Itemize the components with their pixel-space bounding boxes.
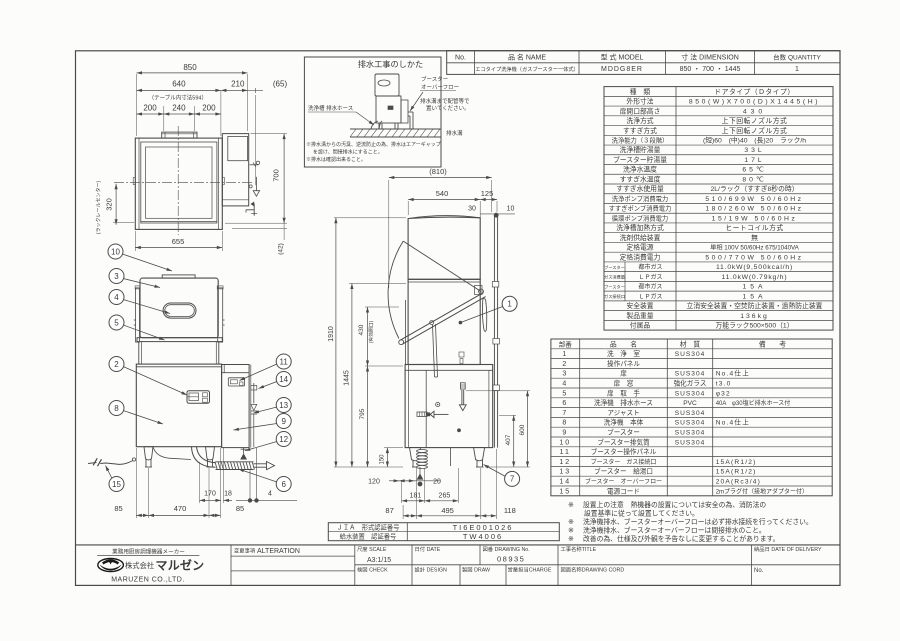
plan booster: [222, 134, 248, 206]
svg-text:17L: 17L: [744, 157, 764, 164]
svg-text:給水装置 認証番号: 給水装置 認証番号: [340, 532, 397, 541]
svg-text:10: 10: [111, 247, 120, 256]
balloon 13: [276, 398, 291, 413]
side bottom dims: [415, 468, 417, 519]
svg-text:都市ガス: 都市ガス: [638, 263, 662, 271]
svg-text:No.4仕上: No.4仕上: [716, 369, 750, 378]
svg-text:(有効開口): (有効開口): [368, 320, 375, 343]
svg-text:品 名: 品 名: [610, 339, 637, 348]
svg-text:118: 118: [504, 506, 516, 515]
svg-text:洗浄槽加熱方式: 洗浄槽加熱方式: [616, 223, 664, 232]
svg-text:ブースター ガス接続口: ブースター ガス接続口: [591, 458, 657, 466]
svg-text:850 ・ 700 ・ 1445: 850 ・ 700 ・ 1445: [680, 66, 741, 73]
svg-text:10: 10: [559, 439, 571, 446]
svg-text:14: 14: [559, 479, 571, 486]
svg-text:210: 210: [231, 80, 245, 89]
prop rod: [433, 325, 435, 378]
svg-text:外形寸法: 外形寸法: [626, 97, 653, 106]
drain pan curve: [153, 447, 191, 460]
svg-text:33L: 33L: [744, 147, 764, 154]
svg-text:136kg: 136kg: [740, 313, 769, 320]
svg-text:320: 320: [105, 198, 114, 211]
open door bar: [400, 293, 483, 341]
svg-text:設置基準に従って設置してください。: 設置基準に従って設置してください。: [584, 509, 699, 518]
svg-text:PVC: PVC: [683, 400, 697, 407]
svg-text:2: 2: [562, 361, 568, 368]
svg-text:寸 法 DIMENSION: 寸 法 DIMENSION: [681, 53, 739, 62]
plan side fittings: gas valve: [250, 164, 259, 166]
svg-text:工事名称TITLE: 工事名称TITLE: [561, 545, 597, 553]
svg-text:(65): (65): [273, 80, 288, 89]
svg-text:定格電源: 定格電源: [626, 243, 653, 252]
svg-text:型 式 MODEL: 型 式 MODEL: [601, 53, 644, 62]
svg-text:洗浄槽貯湯量: 洗浄槽貯湯量: [620, 145, 661, 154]
front lower body: [136, 364, 221, 447]
svg-text:日付 DATE: 日付 DATE: [415, 545, 441, 553]
svg-text:SUS304: SUS304: [675, 410, 706, 417]
plan centerlines: [177, 126, 179, 235]
title block: [76, 544, 841, 546]
svg-text:※: ※: [568, 536, 574, 543]
svg-text:φ32: φ32: [716, 390, 731, 397]
svg-text:※: ※: [568, 519, 574, 526]
svg-text:定格消費電力: 定格消費電力: [620, 252, 661, 261]
side chamber: [408, 279, 480, 364]
svg-text:立消安全装置・空焚防止装置・過熱防止装置: 立消安全装置・空焚防止装置・過熱防止装置: [687, 301, 823, 310]
svg-text:置いてください。: 置いてください。: [426, 105, 470, 112]
svg-text:洗浄方式: 洗浄方式: [626, 116, 653, 125]
front bottom dims: [148, 468, 150, 518]
svg-text:3: 3: [562, 371, 568, 378]
dim 850: [136, 74, 138, 136]
svg-text:850: 850: [183, 63, 197, 72]
svg-text:80℃: 80℃: [742, 176, 766, 183]
drain-work detail box: [304, 57, 441, 167]
coiled drain hose: [417, 450, 428, 453]
svg-text:407: 407: [505, 434, 512, 445]
svg-text:9: 9: [281, 417, 286, 426]
svg-text:納品日 DATE OF DELIVERY: 納品日 DATE OF DELIVERY: [754, 545, 822, 553]
svg-text:1445: 1445: [344, 370, 351, 386]
svg-text:上下回転ノズル方式: 上下回転ノズル方式: [722, 126, 788, 135]
svg-text:1: 1: [507, 300, 512, 309]
svg-text:図番 DRAWING No.: 図番 DRAWING No.: [483, 546, 530, 553]
svg-text:4: 4: [268, 490, 272, 497]
balloon 9: [276, 414, 291, 429]
svg-text:200: 200: [143, 103, 157, 112]
balloon 11: [276, 354, 291, 369]
svg-text:電源コード: 電源コード: [607, 486, 640, 495]
latch parts: [459, 352, 464, 357]
svg-text:すすぎ水温度: すすぎ水温度: [620, 174, 661, 183]
interior symbols: rinse inlet hollow down-arrow: [460, 383, 465, 389]
door swing arc: [388, 241, 403, 338]
svg-text:株式会社: 株式会社: [125, 561, 154, 570]
balloon 1: [502, 296, 517, 311]
drain hose front: [197, 447, 216, 463]
svg-text:を設け、間接排水にすること。: を設け、間接排水にすること。: [313, 149, 383, 156]
svg-text:ブースター 給湯口: ブースター 給湯口: [594, 467, 653, 476]
svg-text:(42): (42): [278, 243, 285, 255]
side view raised hood: [408, 217, 480, 279]
svg-text:ＪＩＡ 形式認証番号: ＪＩＡ 形式認証番号: [337, 523, 400, 532]
svg-text:15A: 15A: [742, 293, 766, 300]
svg-text:（テーブル内寸法594）: （テーブル内寸法594）: [149, 93, 207, 101]
svg-text:6: 6: [281, 480, 286, 489]
balloon 4: [109, 290, 124, 305]
svg-text:強化ガラス: 強化ガラス: [674, 379, 707, 388]
plan rail clips: [133, 178, 135, 185]
svg-text:2mプラグ付（接地アダプター付）: 2mプラグ付（接地アダプター付）: [716, 487, 808, 495]
svg-text:排水溝: 排水溝: [446, 129, 463, 137]
balloon 15: [109, 477, 124, 492]
svg-text:15A(R1/2): 15A(R1/2): [716, 469, 757, 476]
svg-text:検図 CHECK: 検図 CHECK: [357, 566, 388, 574]
svg-text:5: 5: [562, 390, 568, 397]
svg-text:12: 12: [559, 459, 571, 466]
svg-text:495: 495: [441, 506, 454, 515]
svg-text:No.: No.: [754, 568, 764, 574]
chamber section below hood: [138, 342, 140, 365]
svg-text:洗浄水温度: 洗浄水温度: [623, 165, 657, 174]
balloon 10: [108, 244, 123, 259]
svg-text:ブースター オーバーフロー: ブースター オーバーフロー: [585, 478, 662, 486]
svg-text:265: 265: [439, 492, 451, 499]
svg-text:※: ※: [568, 502, 574, 509]
svg-text:ガス消費量: ガス消費量: [604, 274, 625, 281]
svg-text:洗浄能力（３段階）: 洗浄能力（３段階）: [612, 136, 669, 145]
svg-text:改善の為、仕様及び外観を予告なしに変更することがあります。: 改善の為、仕様及び外観を予告なしに変更することがあります。: [583, 534, 779, 543]
svg-text:台数 QUANTITY: 台数 QUANTITY: [773, 53, 821, 62]
dim 540 / 125: [407, 201, 409, 215]
balloon 6: [276, 477, 291, 492]
svg-text:No.4仕上: No.4仕上: [716, 418, 750, 427]
svg-text:540: 540: [436, 189, 449, 198]
hood side posts: [136, 288, 140, 342]
plan view inner rects: [141, 142, 217, 223]
svg-text:850(W)X700(D)X1445(H): 850(W)X700(D)X1445(H): [689, 99, 820, 106]
svg-text:15A: 15A: [742, 284, 766, 291]
svg-text:150: 150: [379, 454, 385, 465]
svg-text:A3:1/15: A3:1/15: [367, 557, 391, 564]
svg-text:4: 4: [114, 293, 119, 302]
svg-text:ブースター: ブースター: [607, 428, 640, 437]
svg-text:2L/ラック（すすぎ8秒の時）: 2L/ラック（すすぎ8秒の時）: [711, 184, 799, 193]
svg-text:430: 430: [358, 324, 365, 335]
dim 1445: [349, 283, 406, 285]
svg-text:操作パネル: 操作パネル: [607, 359, 640, 368]
svg-text:640: 640: [172, 80, 186, 89]
detail: machine body: [376, 96, 401, 123]
svg-text:ブースター: ブースター: [604, 283, 625, 290]
svg-text:付属品: 付属品: [630, 321, 651, 330]
svg-text:ＬＰガス: ＬＰガス: [638, 273, 662, 281]
svg-text:85: 85: [114, 504, 122, 513]
detail: machine hood: [375, 74, 399, 96]
svg-text:安全装置: 安全装置: [626, 301, 653, 310]
dim 700 / (42): [251, 133, 288, 135]
svg-text:扉 窓: 扉 窓: [614, 379, 634, 388]
svg-text:9: 9: [562, 430, 568, 437]
svg-text:マルゼン: マルゼン: [156, 558, 205, 573]
svg-text:08935: 08935: [497, 555, 525, 564]
svg-text:ヒートコイル方式: ヒートコイル方式: [725, 223, 783, 232]
svg-text:洗浄機 本体: 洗浄機 本体: [604, 418, 644, 427]
svg-text:TW4006: TW4006: [463, 532, 503, 541]
svg-text:170: 170: [204, 490, 216, 497]
balloon 7: [505, 471, 520, 486]
svg-text:65℃: 65℃: [742, 167, 766, 174]
svg-text:t3.0: t3.0: [716, 381, 732, 388]
svg-text:洗浄機排水、ブースターオーバーフローは必ず排水接続を行ってく: 洗浄機排水、ブースターオーバーフローは必ず排水接続を行ってください。: [583, 517, 813, 526]
hinge bracket: [475, 286, 483, 295]
dim 640 / 210 / (65): [220, 91, 222, 136]
svg-text:470: 470: [174, 504, 187, 513]
svg-text:10: 10: [507, 205, 515, 212]
svg-text:すすぎポンプ消費電力: すすぎポンプ消費電力: [609, 204, 672, 213]
svg-text:ブースター: ブースター: [604, 264, 625, 271]
svg-text:図面名称DRAWING CORD: 図面名称DRAWING CORD: [561, 566, 625, 574]
svg-text:扉: 扉: [620, 369, 627, 378]
svg-text:洗浄機 排水ホース: 洗浄機 排水ホース: [594, 398, 653, 407]
svg-text:洗浄槽 排水ホース: 洗浄槽 排水ホース: [308, 104, 353, 112]
svg-text:14: 14: [279, 375, 288, 384]
balloon 5: [109, 315, 124, 330]
plan view outer square: [135, 138, 222, 229]
detail: booster overflow pipe: [401, 100, 408, 123]
svg-text:単相 100V 50/60Hz 675/1040VA: 単相 100V 50/60Hz 675/1040VA: [710, 244, 800, 252]
svg-text:製図 DRAW: 製図 DRAW: [462, 566, 490, 574]
svg-text:795: 795: [359, 408, 366, 419]
dim 655: [134, 231, 136, 251]
svg-text:ブースター排気筒: ブースター排気筒: [597, 437, 650, 446]
svg-text:材 質: 材 質: [680, 339, 701, 348]
svg-text:SUS304: SUS304: [675, 430, 706, 437]
svg-text:15A(R1/2): 15A(R1/2): [716, 459, 757, 466]
svg-text:営業担当CHARGE: 営業担当CHARGE: [508, 566, 552, 574]
dim 200/240/200: [163, 106, 165, 131]
svg-text:循環ポンプ消費電力: 循環ポンプ消費電力: [612, 213, 668, 222]
hood handle oval: [163, 303, 196, 318]
svg-text:240: 240: [172, 103, 186, 112]
svg-text:部番: 部番: [559, 339, 573, 348]
hood bottom band: [137, 338, 222, 342]
svg-text:125: 125: [481, 189, 494, 198]
svg-text:655: 655: [172, 237, 185, 246]
svg-text:製品重量: 製品重量: [626, 311, 653, 320]
svg-text:87: 87: [385, 506, 393, 515]
svg-text:120: 120: [368, 478, 380, 485]
detergent inlet hollow left-arrow: [417, 412, 427, 416]
svg-text:15: 15: [112, 480, 121, 489]
svg-text:1910: 1910: [328, 326, 335, 342]
svg-text:ブースター: ブースター: [421, 75, 448, 83]
balloon 12: [276, 432, 291, 447]
dim (810): [388, 180, 390, 288]
svg-text:180/260W 50/60Hz: 180/260W 50/60Hz: [705, 206, 803, 213]
svg-text:No.: No.: [455, 55, 466, 62]
svg-text:200: 200: [202, 103, 216, 112]
legs front: [144, 447, 153, 460]
svg-text:ALTERATION: ALTERATION: [257, 548, 300, 555]
svg-text:11: 11: [560, 449, 571, 456]
svg-text:ドアタイプ（Ｄタイプ）: ドアタイプ（Ｄタイプ）: [714, 87, 794, 96]
svg-text:ブースター貯湯量: ブースター貯湯量: [613, 155, 667, 164]
svg-text:設置上の注意 熱機器の設置については安全の為、消防法の: 設置上の注意 熱機器の設置については安全の為、消防法の: [583, 500, 766, 509]
JIA certification table: [328, 523, 559, 541]
svg-text:11.0kW(9,500kcal/h): 11.0kW(9,500kcal/h): [716, 264, 793, 271]
plan fitting circle: [249, 185, 252, 188]
svg-text:都市ガス: 都市ガス: [638, 283, 662, 291]
balloon 2: [109, 357, 124, 372]
svg-text:15: 15: [559, 488, 571, 495]
dim 150: [384, 447, 403, 449]
svg-text:SUS304: SUS304: [675, 390, 706, 397]
svg-text:20A(Rc3/4): 20A(Rc3/4): [716, 479, 761, 486]
door handle side: [482, 299, 486, 332]
svg-text:85: 85: [236, 504, 244, 513]
svg-text:エコタイプ洗浄機（ガスブースター一体式）: エコタイプ洗浄機（ガスブースター一体式）: [475, 65, 579, 73]
svg-text:排水工事のしかた: 排水工事のしかた: [358, 59, 424, 69]
svg-text:(短)60 (中)40 (長)20 ラック/h: (短)60 (中)40 (長)20 ラック/h: [703, 136, 806, 145]
svg-text:万能ラック500×500（1）: 万能ラック500×500（1）: [715, 321, 793, 330]
svg-text:30: 30: [468, 205, 476, 212]
dim 407 / 600 right: [466, 390, 530, 392]
svg-text:※: ※: [568, 528, 574, 535]
svg-text:(810): (810): [429, 167, 447, 176]
svg-text:洗浄機排水、ブースターオーバーフローは間接排水のこと。: 洗浄機排水、ブースターオーバーフローは間接排水のこと。: [583, 526, 766, 535]
svg-text:SUS304: SUS304: [675, 351, 706, 358]
plan water inlet arrow: [255, 177, 257, 191]
svg-text:4: 4: [562, 381, 568, 388]
power cord: [132, 458, 135, 461]
front view hood: [140, 278, 218, 338]
plan vent tab: [162, 132, 197, 138]
balloon 1: [459, 321, 463, 325]
svg-text:13: 13: [279, 401, 288, 410]
svg-text:12: 12: [279, 435, 288, 444]
specification table: [604, 87, 833, 331]
svg-text:500/770W 50/60Hz: 500/770W 50/60Hz: [705, 254, 803, 261]
svg-text:扉開口部高さ: 扉開口部高さ: [620, 106, 661, 115]
booster panel: [228, 378, 244, 386]
svg-text:5: 5: [114, 318, 119, 327]
svg-text:排水溝まで配管等で: 排水溝まで配管等で: [420, 97, 470, 105]
svg-text:MARUZEN CO.,LTD.: MARUZEN CO.,LTD.: [111, 577, 185, 584]
svg-text:11.0kW(0.79kg/h): 11.0kW(0.79kg/h): [722, 274, 788, 281]
front view hood vent tab: [162, 275, 195, 278]
svg-text:洗浄ポンプ消費電力: 洗浄ポンプ消費電力: [612, 194, 668, 203]
svg-text:700: 700: [272, 169, 281, 182]
svg-text:扉 取 手: 扉 取 手: [607, 388, 640, 397]
svg-text:7: 7: [562, 410, 568, 417]
svg-text:40A φ30塩ビ排水ホース付: 40A φ30塩ビ排水ホース付: [716, 399, 791, 407]
detail: floor hatch: [350, 128, 441, 130]
balloon 3: [109, 269, 124, 284]
svg-text:18: 18: [224, 490, 232, 497]
svg-text:すすぎ水使用量: すすぎ水使用量: [616, 184, 664, 193]
corrugated hose: [216, 461, 254, 463]
balloon 8: [109, 401, 124, 416]
svg-text:20: 20: [433, 478, 441, 485]
svg-text:13: 13: [559, 469, 571, 476]
gas pipe fittings right: [253, 383, 255, 403]
svg-text:1: 1: [562, 351, 568, 358]
svg-text:すすぎ方式: すすぎ方式: [623, 126, 657, 135]
svg-text:8: 8: [562, 420, 568, 427]
svg-text:品 名 NAME: 品 名 NAME: [508, 53, 546, 62]
svg-text:洗剤供給装置: 洗剤供給装置: [620, 233, 661, 242]
svg-text:無: 無: [751, 233, 758, 242]
svg-text:洗 浄 室: 洗 浄 室: [607, 349, 640, 358]
svg-text:3: 3: [114, 272, 119, 281]
svg-text:181: 181: [410, 492, 422, 499]
spec split cells gas: [624, 262, 626, 301]
svg-text:アジャスト: アジャスト: [607, 409, 639, 417]
svg-text:設計 DESIGN: 設計 DESIGN: [415, 566, 448, 574]
balloon 14: [276, 372, 291, 387]
svg-text:オーバーフロー: オーバーフロー: [421, 84, 459, 91]
side lower body: [405, 365, 493, 448]
svg-text:(ラックレールセンター): (ラックレールセンター): [95, 181, 102, 235]
svg-text:業務用厨房調理機器メーカー: 業務用厨房調理機器メーカー: [112, 548, 185, 556]
svg-text:種 類: 種 類: [630, 87, 651, 96]
svg-text:備 考: 備 考: [759, 339, 786, 348]
svg-text:15/19W 50/60Hz: 15/19W 50/60Hz: [712, 215, 798, 222]
svg-text:変更事項: 変更事項: [234, 547, 256, 555]
rear flue pipe: [493, 215, 495, 447]
svg-text:8: 8: [114, 404, 119, 413]
svg-text:MDDG8ER: MDDG8ER: [601, 66, 643, 73]
svg-text:1: 1: [795, 66, 799, 73]
svg-text:ＬＰガス: ＬＰガス: [638, 292, 662, 300]
svg-text:7: 7: [510, 475, 515, 484]
plan faucet symbol: [253, 204, 255, 216]
svg-text:11: 11: [280, 357, 289, 366]
svg-text:600: 600: [519, 424, 526, 435]
svg-text:SUS304: SUS304: [675, 371, 706, 378]
svg-text:※排水は確認出来ること。: ※排水は確認出来ること。: [306, 156, 366, 163]
header table (No/NAME/MODEL/DIMENSION/QUANTITY): [447, 51, 840, 75]
detail: legs: [378, 123, 380, 129]
svg-text:上下回転ノズル方式: 上下回転ノズル方式: [722, 116, 788, 125]
dim 1910: [334, 217, 406, 219]
svg-text:※排水溝からの汚臭、逆流防止の為、排水はエアーギャップ: ※排水溝からの汚臭、逆流防止の為、排水はエアーギャップ: [306, 141, 441, 148]
dim 430 (opening): [365, 306, 399, 308]
svg-text:6: 6: [562, 400, 568, 407]
svg-text:2: 2: [114, 360, 119, 369]
side legs: [410, 448, 421, 461]
drawing border frame: [76, 51, 841, 586]
detail: drain hose left: [371, 121, 378, 129]
svg-text:SUS304: SUS304: [675, 420, 706, 427]
parts list table: [551, 339, 832, 496]
svg-text:尺度 SCALE: 尺度 SCALE: [357, 545, 387, 553]
control panel: [187, 391, 210, 404]
booster front: [222, 365, 250, 448]
svg-text:SUS304: SUS304: [675, 439, 706, 446]
svg-text:430: 430: [743, 108, 766, 115]
svg-text:510/699W 50/60Hz: 510/699W 50/60Hz: [705, 196, 803, 203]
svg-text:ブースター操作パネル: ブースター操作パネル: [591, 447, 657, 456]
svg-text:TI6E001026: TI6E001026: [453, 523, 514, 532]
dim 320 rack rail center: [113, 221, 134, 223]
dim 795: [367, 366, 369, 417]
svg-text:ガス接続口: ガス接続口: [604, 293, 625, 300]
